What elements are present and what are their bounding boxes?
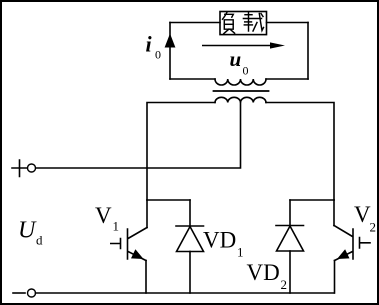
wire loop bottom-left — [170, 78, 215, 80]
load box (负载) — [220, 12, 267, 35]
wire loop left vertical — [169, 23, 171, 80]
wire branch to VD2 — [290, 199, 334, 201]
diode VD1 — [176, 226, 204, 252]
wire loop top-left — [170, 22, 220, 24]
wire loop top-right — [267, 22, 309, 24]
wire VD1 bottom lead — [189, 252, 191, 294]
wire secondary left end to left rail — [147, 103, 215, 201]
V1 emitter arrow — [131, 249, 144, 259]
wire loop bottom-right — [266, 78, 308, 80]
wire branch to VD1 — [147, 199, 190, 201]
transformer secondary winding (bottom coil, center-tapped) — [215, 97, 266, 102]
wire loop right vertical — [307, 23, 309, 80]
transformer primary winding (top coil) — [215, 79, 266, 85]
svg-text:0: 0 — [155, 48, 161, 62]
terminal circle + — [28, 164, 36, 172]
wire VD2 bottom lead — [289, 251, 291, 293]
svg-text:2: 2 — [281, 277, 288, 292]
terminal circle - — [28, 289, 36, 297]
svg-text:u: u — [230, 47, 242, 71]
wire V1 emitter down — [145, 261, 147, 294]
wire VD1 top lead — [189, 200, 191, 226]
svg-text:U: U — [18, 218, 37, 244]
diode VD2 — [276, 226, 304, 252]
svg-text:V: V — [95, 203, 112, 228]
wire center tap down and left to + terminal — [36, 103, 241, 169]
transistor V2 — [334, 226, 370, 261]
svg-text:d: d — [36, 233, 43, 248]
V2 emitter arrow — [337, 249, 350, 259]
svg-text:0: 0 — [243, 64, 249, 78]
wire V2 emitter down — [334, 261, 336, 294]
svg-text:1: 1 — [237, 245, 244, 260]
text 负 (load char 1, hand-drawn strokes) — [223, 12, 264, 34]
transistor V1 — [111, 228, 147, 261]
svg-text:VD: VD — [247, 260, 280, 285]
wire VD2 top lead — [289, 200, 291, 226]
svg-text:V: V — [354, 202, 371, 227]
svg-text:VD: VD — [203, 228, 236, 253]
+ symbol — [12, 160, 27, 177]
wire V1 collector — [146, 200, 148, 228]
bottom wire — [36, 292, 335, 294]
text 载 (load char 2, hand-drawn strokes) — [245, 14, 252, 16]
transformer core — [214, 90, 269, 92]
wire V2 collector — [333, 200, 335, 226]
svg-text:1: 1 — [113, 219, 120, 234]
i0 current arrow — [165, 34, 176, 48]
u0 voltage arrow — [202, 45, 271, 47]
- symbol — [13, 292, 25, 294]
svg-text:2: 2 — [370, 220, 377, 235]
svg-text:i: i — [146, 32, 153, 57]
wire secondary right end to right rail — [266, 103, 334, 201]
